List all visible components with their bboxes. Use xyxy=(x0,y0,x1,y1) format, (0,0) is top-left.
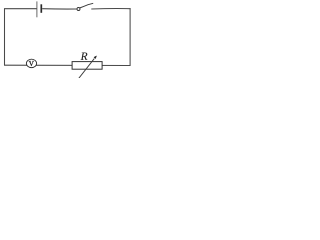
switch pivot circle xyxy=(77,8,80,11)
battery short thick plate (negative) xyxy=(40,4,42,13)
wire right vertical xyxy=(129,8,131,66)
battery long thin plate (positive) xyxy=(36,1,38,17)
rheostat arrowhead xyxy=(94,56,97,59)
svg-text:V: V xyxy=(29,60,35,68)
switch lever xyxy=(80,3,93,8)
wire bottom segment xyxy=(4,64,130,66)
wire battery to switch xyxy=(42,8,77,10)
rheostat R body xyxy=(72,62,102,70)
voltmeter body xyxy=(26,59,36,67)
svg-text:R: R xyxy=(80,51,88,63)
rheostat arrow shaft xyxy=(79,59,95,79)
wire top-right segment xyxy=(91,8,130,10)
wire left vertical xyxy=(4,8,6,65)
wire top-left segment xyxy=(5,8,37,10)
